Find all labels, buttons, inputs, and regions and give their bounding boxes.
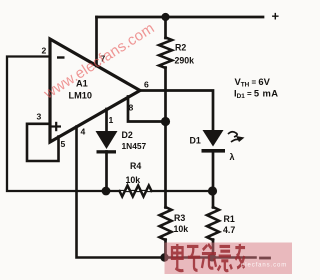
svg-text:4.7: 4.7 xyxy=(223,225,235,235)
watermark glyph 4 xyxy=(218,246,232,270)
resistor R1 xyxy=(207,207,219,240)
svg-text:6: 6 xyxy=(144,80,149,90)
wire R1 bottom lead xyxy=(212,240,215,258)
wire D1 cathode to node xyxy=(212,152,215,191)
watermark bottom pink panel xyxy=(165,243,293,275)
svg-text:D1: D1 xyxy=(190,136,201,146)
watermark glyph 3 xyxy=(202,244,216,268)
svg-text:R1: R1 xyxy=(224,214,235,224)
watermark glyph 1 xyxy=(172,244,183,271)
wire pin4 down and bottom rail xyxy=(77,127,256,258)
resistor R4 (drawn over mid rail) xyxy=(120,186,152,197)
svg-text:3: 3 xyxy=(37,112,42,122)
svg-text:R2: R2 xyxy=(175,43,186,53)
svg-text:1N457: 1N457 xyxy=(122,141,147,151)
junction node: top rail / R2 xyxy=(161,13,169,21)
watermark glyph 2 xyxy=(187,246,200,270)
svg-text:4: 4 xyxy=(81,127,86,137)
junction node: R3 / bottom rail xyxy=(160,253,168,261)
resistor R2 xyxy=(159,38,172,69)
minus terminal dash xyxy=(261,257,270,260)
minus input symbol xyxy=(57,56,65,58)
svg-text:R4: R4 xyxy=(130,161,141,171)
wire R1 top lead xyxy=(212,191,215,208)
svg-text:2: 2 xyxy=(42,46,47,56)
svg-text:LM10: LM10 xyxy=(69,91,93,101)
wire pin8 to output node xyxy=(128,97,166,122)
svg-text:290k: 290k xyxy=(175,56,195,66)
wire pin7 to top rail xyxy=(95,17,98,66)
wire pin3 loop to pin5 xyxy=(27,124,59,161)
junction node: pin8 / output line xyxy=(161,117,170,126)
watermark glyph 5 xyxy=(235,244,245,268)
op-amp A1 triangle xyxy=(50,39,140,142)
plus input symbol xyxy=(52,122,62,131)
wire R3 bottom lead xyxy=(164,240,167,258)
svg-text:10k: 10k xyxy=(174,224,189,234)
resistor R3 xyxy=(160,207,172,240)
wire R2 bottom lead down to R3 (crosses pin6 wire and rail) xyxy=(164,68,167,208)
svg-text:elecfans.com: elecfans.com xyxy=(241,263,287,269)
junction node: D2 cathode / mid rail xyxy=(102,187,111,196)
wire pin2 feedback: left, down, and bottom mid rail to D1 node xyxy=(7,57,213,192)
LED D1 emission arrows xyxy=(228,132,240,142)
wire pin6 output to D1 branch corner xyxy=(140,91,213,131)
svg-text:5: 5 xyxy=(61,139,66,149)
svg-text:R3: R3 xyxy=(174,213,185,223)
svg-text:8: 8 xyxy=(129,103,134,113)
svg-text:1: 1 xyxy=(109,115,114,125)
svg-text:D2: D2 xyxy=(122,130,133,140)
wire D2 cathode to mid rail xyxy=(105,152,108,192)
LED D1 xyxy=(202,130,226,153)
wire R2 top lead xyxy=(164,17,167,38)
wire pin1 to D2 xyxy=(105,109,108,131)
svg-text:10k: 10k xyxy=(126,175,141,185)
svg-text:+: + xyxy=(272,9,280,24)
junction node: R1 / bottom rail xyxy=(208,254,216,262)
diode D2 1N457 xyxy=(96,131,118,154)
svg-text:λ: λ xyxy=(230,152,235,162)
junction node: D1 cathode / R1 / mid rail xyxy=(208,186,217,195)
wire top supply rail xyxy=(97,16,264,19)
